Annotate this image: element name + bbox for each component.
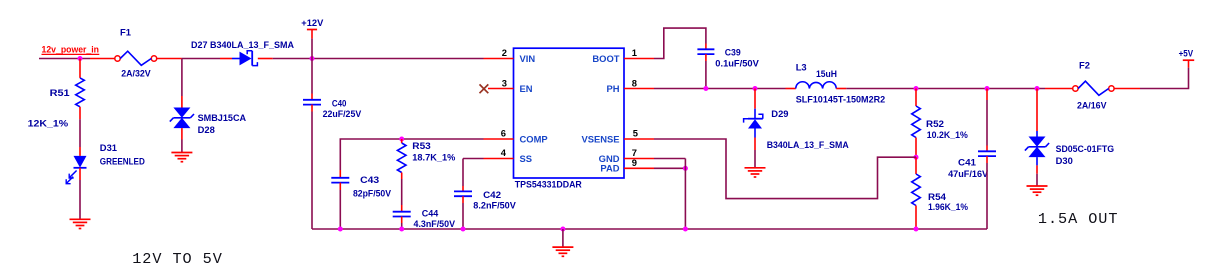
wire to F2 pin 1 [1045, 88, 1073, 90]
pin C39.1 [705, 44, 707, 50]
pin R51.1 [79, 59, 81, 78]
TVS diode D30 SD05C-01FTG [1029, 137, 1046, 147]
svg-text:SS: SS [520, 153, 533, 164]
resistor R54 [912, 174, 921, 206]
svg-text:+12V: +12V [301, 17, 324, 28]
wire C42 to gnd rail [462, 203, 464, 229]
ground (D30) [1027, 186, 1048, 195]
svg-text:82pF/50V: 82pF/50V [353, 188, 392, 199]
ground (rail) [552, 247, 573, 256]
op-amp/regulator IC U1 TPS54331DDAR [514, 48, 625, 178]
pin U1.7 GND [624, 158, 654, 160]
svg-text:2A/16V: 2A/16V [1077, 99, 1107, 110]
wire to F1 pin 1 [90, 58, 115, 60]
ground (D28) [171, 153, 192, 162]
svg-text:5: 5 [633, 128, 638, 139]
svg-text:TPS54331DDAR: TPS54331DDAR [515, 179, 582, 190]
pin D31 anode [79, 147, 81, 156]
svg-text:F2: F2 [1079, 60, 1090, 71]
pin R53.2 [401, 173, 403, 180]
capacitor C42 [454, 190, 472, 192]
capacitor C40 [303, 99, 321, 101]
pin D29 cathode [754, 89, 756, 109]
wire PAD pin [654, 167, 685, 169]
pin C41.2 [986, 156, 988, 163]
pin C41 wire top [986, 89, 988, 101]
svg-text:8: 8 [632, 77, 637, 88]
svg-text:1.5A OUT: 1.5A OUT [1038, 210, 1119, 228]
svg-text:3: 3 [502, 77, 507, 88]
wire to D27 anode [182, 58, 220, 60]
svg-text:F1: F1 [120, 26, 131, 37]
junction C41 top [985, 86, 990, 91]
svg-text:D30: D30 [1056, 155, 1073, 166]
svg-text:VIN: VIN [520, 53, 536, 64]
wire rail to ground symbol [562, 229, 564, 247]
svg-text:GREENLED: GREENLED [100, 156, 145, 167]
ground (D29) [745, 168, 766, 177]
pin D29 anode [754, 138, 756, 151]
junction GND/PAD [683, 166, 688, 171]
svg-text:C41: C41 [958, 157, 976, 168]
svg-text:D27 B340LA_13_F_SMA: D27 B340LA_13_F_SMA [191, 39, 294, 50]
ground (D31) [70, 219, 91, 228]
wire D28 to ground [181, 140, 183, 153]
diode D29 B340LA_13_F_SMA [744, 109, 763, 138]
svg-text:R51: R51 [50, 87, 70, 98]
svg-text:6: 6 [501, 128, 506, 139]
pin C39.2 [705, 54, 707, 61]
wire R51 to D31 [79, 119, 81, 147]
power +5V [1188, 60, 1190, 67]
svg-text:PAD: PAD [600, 162, 619, 173]
pin U1.5 VSENSE [624, 138, 654, 140]
pin F2.2 [1114, 88, 1140, 90]
pin U1.9 PAD [624, 167, 654, 169]
wire to C40 [311, 59, 313, 94]
junction C42 bottom [461, 227, 466, 232]
svg-text:D29: D29 [771, 108, 788, 119]
resistor R53 [397, 143, 406, 173]
wire D29 to ground [754, 150, 756, 168]
junction R53 top [399, 137, 404, 142]
pin L3.1 [786, 88, 796, 90]
pin R52.2 [915, 138, 917, 158]
wire SS corner to C42 [462, 159, 464, 187]
svg-text:2: 2 [502, 47, 507, 58]
junction C44 bottom [399, 227, 404, 232]
svg-text:D28: D28 [198, 124, 215, 135]
wire D30 to ground [1036, 174, 1038, 186]
wire PH rail [654, 88, 786, 90]
svg-text:8.2nF/50V: 8.2nF/50V [473, 199, 516, 210]
junction D29/PH [753, 86, 758, 91]
svg-text:R52: R52 [926, 118, 944, 129]
pin U1.1 BOOT [624, 58, 654, 60]
svg-text:22uF/25V: 22uF/25V [323, 108, 362, 119]
pin U1.8 PH [624, 88, 654, 90]
svg-text:12V TO 5V: 12V TO 5V [132, 250, 223, 268]
svg-text:R53: R53 [412, 140, 431, 151]
TVS diode D28 SMBJ15CA [173, 108, 190, 118]
svg-text:10.2K_1%: 10.2K_1% [927, 129, 969, 140]
junction 12v_power_in / R51 [78, 56, 83, 61]
wire BOOT to C39 [654, 28, 706, 58]
junction R54 bottom [914, 227, 919, 232]
svg-text:SMBJ15CA: SMBJ15CA [198, 112, 247, 123]
svg-text:15uH: 15uH [816, 68, 837, 79]
pin C40.2 [311, 105, 313, 112]
svg-text:18.7K_1%: 18.7K_1% [412, 152, 456, 163]
pin C44.2 [401, 217, 403, 224]
svg-text:L3: L3 [796, 61, 807, 72]
junction D30 top [1035, 86, 1040, 91]
wire SS net [463, 158, 484, 160]
pin D31 cathode [79, 168, 81, 180]
capacitor C39 [697, 48, 714, 50]
pin C41.1 [986, 146, 988, 152]
svg-text:1.96K_1%: 1.96K_1% [928, 201, 969, 212]
resistor R51 [76, 78, 85, 107]
svg-text:B340LA_13_F_SMA: B340LA_13_F_SMA [767, 139, 849, 150]
svg-text:VSENSE: VSENSE [581, 133, 619, 144]
junction R52 top [914, 86, 919, 91]
capacitor C44 [393, 211, 411, 213]
wire C39 to PH [705, 61, 707, 89]
wire F2 to +5V [1140, 68, 1189, 89]
pin C44.1 [401, 205, 403, 212]
svg-text:2A/32V: 2A/32V [121, 68, 151, 79]
LED D31 GREENLED [66, 156, 86, 184]
svg-text:SLF10145T-150M2R2: SLF10145T-150M2R2 [796, 93, 886, 104]
pin D30.1 [1036, 89, 1038, 132]
pin C43.2 [339, 183, 341, 190]
svg-text:12K_1%: 12K_1% [28, 117, 69, 128]
capacitor C41 [978, 150, 996, 152]
capacitor C43 [331, 177, 349, 179]
svg-text:4: 4 [501, 147, 507, 158]
no-connect X (EN) [480, 84, 489, 93]
svg-text:12v_power_in: 12v_power_in [42, 44, 100, 55]
svg-text:1: 1 [632, 47, 637, 58]
wire 12v input [39, 58, 90, 60]
pin U1.6 COMP [484, 138, 514, 140]
svg-text:PH: PH [606, 83, 619, 94]
wire GND to gnd rail [684, 159, 686, 230]
pin R53.1 [401, 139, 403, 143]
pin U1.3 EN [488, 88, 514, 90]
pin C42.2 [462, 196, 464, 203]
junction C43 bottom [338, 227, 343, 232]
diode D27 B340LA_13_F_SMA [232, 51, 257, 66]
svg-text:47uF/16V: 47uF/16V [948, 168, 989, 179]
svg-text:+5V: +5V [1179, 48, 1194, 59]
wire to C41 [986, 100, 988, 146]
svg-text:SD05C-01FTG: SD05C-01FTG [1056, 143, 1115, 154]
junction +12V / C40 [310, 56, 315, 61]
wire ground rail [312, 228, 987, 230]
pin L3.2 [836, 88, 846, 90]
wire L3 to F2 / output node [846, 88, 1045, 90]
resistor R52 [912, 106, 921, 138]
svg-text:COMP: COMP [520, 133, 548, 144]
wire COMP corner to C43 [339, 139, 342, 170]
pin U1.4 SS [484, 158, 514, 160]
pin D27 anode [220, 58, 232, 60]
wire D27 to VIN [273, 58, 484, 60]
wire COMP net [341, 138, 484, 140]
pin C40.1 [311, 94, 313, 100]
pin D27 cathode [258, 58, 273, 60]
pin R52.1 [915, 89, 917, 107]
junction R52/R54/VSENSE [914, 155, 919, 160]
wire to D28 [181, 59, 183, 97]
svg-text:C39: C39 [725, 47, 741, 58]
wire D31 to ground [79, 180, 81, 219]
svg-text:BOOT: BOOT [592, 53, 619, 64]
wire C41 to gnd rail [986, 163, 988, 229]
svg-text:4.3nF/50V: 4.3nF/50V [414, 218, 456, 229]
pin R54.2 [915, 206, 917, 230]
wire F1 to D28 tap [157, 58, 182, 60]
wire GND pin [654, 158, 685, 160]
svg-text:EN: EN [520, 83, 533, 94]
pin C42.1 [462, 186, 464, 191]
wire R53 to C44 [401, 179, 403, 205]
pin D28.2 [181, 128, 183, 139]
svg-text:0.1uF/50V: 0.1uF/50V [715, 58, 759, 69]
wire +12V to rail [311, 39, 313, 59]
wire C43 to gnd rail [339, 190, 341, 229]
wire VSENSE feedback [654, 139, 916, 199]
fuse F2 [1073, 86, 1078, 91]
wire C44 to gnd rail [401, 223, 403, 229]
pin C43.1 [339, 170, 341, 178]
inductor L3 [796, 82, 836, 89]
junction GND vertical [683, 227, 688, 232]
pin U1.2 VIN [484, 58, 514, 60]
pin D28.1 [181, 96, 183, 108]
pin R51.2 [79, 107, 81, 119]
svg-text:C43: C43 [360, 174, 379, 185]
junction C39/PH [703, 86, 708, 91]
junction ground stub [560, 227, 565, 232]
wire C40 to gnd rail [311, 112, 313, 230]
pin D30.2 [1036, 165, 1038, 173]
svg-text:D31: D31 [100, 142, 117, 153]
fuse F1 [115, 56, 120, 61]
pin R54.1 [915, 157, 917, 174]
